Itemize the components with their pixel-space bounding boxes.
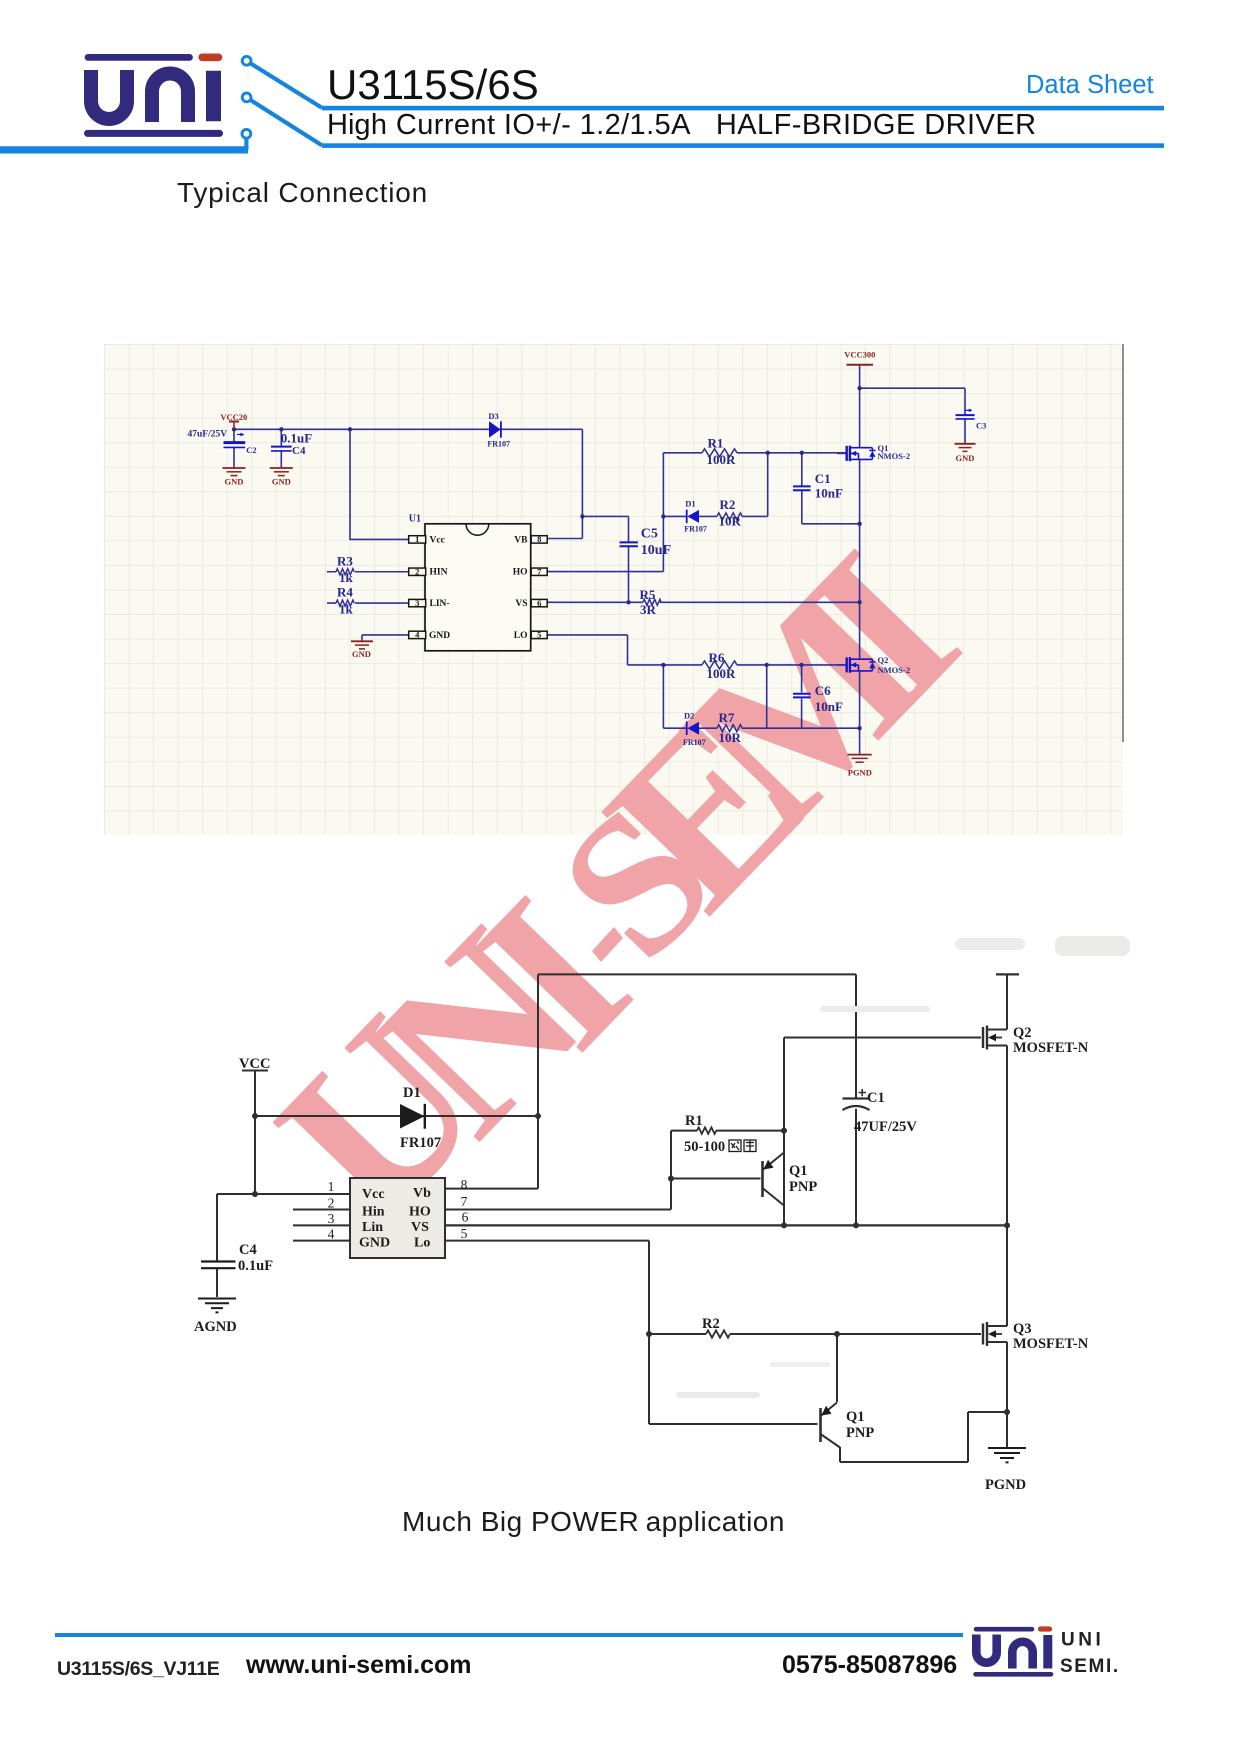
svg-text:Lin: Lin: [362, 1220, 383, 1235]
svg-text:1k: 1k: [339, 601, 354, 616]
svg-text:FR107: FR107: [684, 524, 707, 533]
svg-text:1k: 1k: [339, 570, 354, 585]
svg-text:D1: D1: [685, 499, 695, 509]
svg-text:D2: D2: [684, 710, 694, 720]
svg-text:3R: 3R: [640, 602, 657, 617]
svg-text:LO: LO: [514, 631, 528, 641]
svg-text:R3: R3: [337, 553, 353, 568]
svg-text:6: 6: [537, 598, 541, 608]
svg-text:D1: D1: [403, 1085, 421, 1101]
svg-text:GND: GND: [359, 1236, 390, 1251]
svg-text:R2: R2: [720, 497, 736, 512]
svg-text:10R: 10R: [719, 514, 742, 529]
svg-text:Q2: Q2: [1013, 1025, 1032, 1041]
svg-text:100R: 100R: [707, 452, 737, 467]
svg-text:1: 1: [415, 534, 419, 544]
svg-text:10R: 10R: [719, 730, 742, 745]
svg-text:0.1uF: 0.1uF: [238, 1258, 273, 1274]
svg-text:50-100: 50-100: [684, 1139, 725, 1155]
svg-text:GND: GND: [225, 476, 244, 486]
svg-text:Q3: Q3: [1013, 1321, 1032, 1337]
svg-text:47uF/25V: 47uF/25V: [188, 429, 228, 439]
svg-text:VCC300: VCC300: [844, 350, 875, 360]
svg-text:Q1: Q1: [789, 1163, 808, 1179]
svg-text:LIN-: LIN-: [430, 599, 450, 609]
svg-text:R6: R6: [709, 650, 725, 665]
svg-text:C4: C4: [292, 445, 306, 457]
svg-text:Vcc: Vcc: [430, 535, 445, 545]
svg-text:VS: VS: [515, 599, 527, 609]
svg-text:NMOS-2: NMOS-2: [878, 665, 911, 675]
svg-text:PGND: PGND: [848, 767, 872, 777]
svg-text:HO: HO: [409, 1205, 431, 1220]
svg-text:VCC: VCC: [239, 1056, 270, 1072]
svg-text:PGND: PGND: [985, 1477, 1026, 1493]
svg-text:2: 2: [328, 1196, 335, 1211]
svg-text:C2: C2: [246, 445, 256, 455]
svg-text:8: 8: [461, 1177, 468, 1192]
svg-text:U1: U1: [409, 513, 421, 524]
svg-text:GND: GND: [352, 649, 371, 659]
svg-text:AGND: AGND: [194, 1319, 237, 1335]
svg-text:R5: R5: [640, 587, 656, 602]
svg-text:Q2: Q2: [878, 655, 889, 665]
svg-text:4: 4: [328, 1227, 335, 1242]
svg-text:VB: VB: [514, 535, 528, 545]
svg-text:PNP: PNP: [846, 1425, 874, 1441]
svg-text:5: 5: [461, 1226, 468, 1241]
svg-text:7: 7: [461, 1194, 468, 1209]
svg-text:C3: C3: [976, 420, 986, 430]
svg-text:100R: 100R: [707, 666, 737, 681]
svg-text:R2: R2: [702, 1316, 720, 1332]
svg-text:Q1: Q1: [846, 1409, 865, 1425]
svg-text:GND: GND: [429, 631, 450, 641]
svg-text:HO: HO: [513, 568, 528, 578]
svg-text:GND: GND: [272, 476, 291, 486]
svg-text:D3: D3: [488, 411, 498, 421]
svg-text:UNI: UNI: [1061, 1630, 1104, 1651]
svg-text:10nF: 10nF: [815, 485, 843, 500]
svg-text:3: 3: [328, 1211, 335, 1226]
svg-text:0.1uF: 0.1uF: [281, 430, 312, 445]
svg-text:C6: C6: [815, 683, 831, 698]
svg-text:VS: VS: [411, 1220, 429, 1235]
svg-text:C1: C1: [815, 471, 831, 486]
svg-text:10nF: 10nF: [815, 699, 843, 714]
svg-text:10uF: 10uF: [641, 543, 671, 558]
svg-text:Hin: Hin: [362, 1205, 385, 1220]
svg-text:PNP: PNP: [789, 1179, 817, 1195]
svg-text:MOSFET-N: MOSFET-N: [1013, 1040, 1089, 1056]
svg-text:Vcc: Vcc: [362, 1187, 385, 1202]
svg-text:3: 3: [415, 598, 419, 608]
svg-text:NMOS-2: NMOS-2: [878, 451, 911, 461]
svg-text:2: 2: [415, 567, 419, 577]
svg-text:C4: C4: [239, 1242, 257, 1258]
svg-text:R7: R7: [719, 710, 735, 725]
svg-text:FR107: FR107: [683, 738, 706, 747]
svg-text:VCC20: VCC20: [220, 412, 247, 422]
svg-text:1: 1: [328, 1179, 335, 1194]
svg-text:GND: GND: [956, 453, 975, 463]
svg-text:6: 6: [462, 1210, 469, 1225]
svg-text:Lo: Lo: [414, 1236, 430, 1251]
svg-text:Vb: Vb: [413, 1186, 431, 1201]
svg-text:47UF/25V: 47UF/25V: [854, 1119, 917, 1135]
svg-text:8: 8: [537, 534, 541, 544]
svg-text:5: 5: [537, 630, 541, 640]
svg-text:R1: R1: [708, 435, 724, 450]
svg-text:R1: R1: [685, 1113, 703, 1129]
svg-text:4: 4: [415, 630, 420, 640]
svg-text:R4: R4: [337, 585, 353, 600]
svg-text:C1: C1: [867, 1090, 885, 1106]
svg-text:7: 7: [537, 567, 542, 577]
svg-text:HIN: HIN: [430, 568, 448, 578]
svg-text:SEMI.: SEMI.: [1060, 1656, 1120, 1677]
svg-text:FR107: FR107: [400, 1135, 441, 1151]
svg-text:FR107: FR107: [487, 439, 510, 448]
svg-text:C5: C5: [641, 527, 658, 542]
svg-text:MOSFET-N: MOSFET-N: [1013, 1336, 1089, 1352]
